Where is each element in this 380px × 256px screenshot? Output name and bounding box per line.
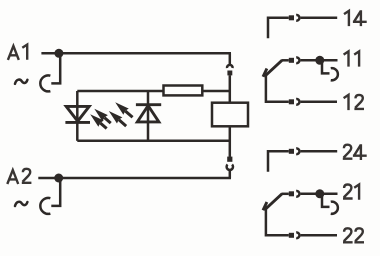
- terminal label A2: [7, 170, 18, 184]
- junction dot at A2: [54, 174, 63, 183]
- switch lever contact 11: [266, 60, 282, 75]
- wire 21 to plug: [282, 193, 289, 196]
- diode D2 (triangle up with cathode bar): [136, 105, 161, 122]
- wire 11 drop to socket: [322, 60, 330, 73]
- wire resistor to coil node: [203, 90, 231, 93]
- terminal label 21: [343, 185, 353, 199]
- wire coil bottom vertical: [229, 128, 232, 157]
- plug-in pin bottom (square): [227, 157, 232, 162]
- wire LED branch vertical: [76, 91, 79, 141]
- wire contact 22 lead: [266, 208, 289, 235]
- plug pin 21 (square): [289, 191, 294, 196]
- LED emission arrow 2a head: [115, 102, 129, 115]
- wire A2 drop to socket: [51, 178, 60, 206]
- LED emission arrow 1b tail: [100, 123, 106, 129]
- plug-in socket top (arc open down): [227, 65, 233, 68]
- wire top rail of indicator network: [77, 90, 163, 93]
- plug pin 22 (square): [289, 233, 294, 238]
- wire A1 drop to socket: [51, 53, 60, 83]
- terminal label 24: [343, 145, 353, 159]
- LED emission arrow 2b head: [109, 111, 123, 124]
- wire 11 to label: [301, 59, 338, 62]
- wire 12 to label: [301, 101, 337, 104]
- wire pin to coil: [229, 75, 232, 101]
- wire coil branch top vertical: [229, 53, 232, 65]
- AC symbol ~ at A2: [15, 202, 27, 206]
- AC symbol ~ at A1: [15, 80, 27, 84]
- wire bottom rail of indicator network: [77, 140, 231, 143]
- lever tick mark 21: [263, 202, 267, 210]
- wire A1 horizontal rail: [41, 52, 231, 55]
- LED emission arrow 2b tail: [119, 120, 126, 126]
- plug-in socket bottom (arc open up): [227, 165, 233, 170]
- resistor R1: [164, 86, 203, 96]
- socket contact A1 (arc open right): [40, 75, 50, 91]
- plug socket 21 (arc open left): [296, 191, 299, 197]
- switch lever contact 21: [266, 194, 282, 209]
- plug socket 11 (arc open left): [296, 57, 299, 63]
- relay coil K1: [212, 103, 248, 127]
- plug socket 12 (arc open left): [296, 99, 299, 105]
- terminal label 11: [344, 51, 349, 66]
- wire 21 to label: [301, 193, 338, 196]
- LED emission arrow 1a head: [94, 109, 108, 122]
- junction dot at A1: [54, 49, 63, 58]
- terminal label 14: [344, 11, 349, 26]
- socket contact A2 (arc open right): [40, 198, 50, 214]
- wire 22 to label: [301, 234, 337, 237]
- lever tick mark 11: [263, 69, 267, 77]
- plug-in pin top (square): [227, 71, 232, 76]
- wire socket to A2 rail: [229, 171, 232, 178]
- wire contact 24 lead with stub: [268, 151, 289, 171]
- LED D1 (triangle down with cathode bar): [65, 106, 90, 122]
- LED emission arrow 2a tail: [125, 111, 132, 117]
- socket contact 21 (arc open left): [331, 202, 338, 214]
- terminal label 12: [344, 95, 349, 110]
- LED emission arrow 1a tail: [104, 118, 110, 124]
- wire diode branch vertical: [147, 91, 150, 141]
- plug pin 11 (square): [289, 58, 294, 63]
- terminal label A1: [8, 46, 19, 60]
- wire 21 drop to socket: [322, 194, 330, 207]
- junction dot 21: [315, 189, 324, 198]
- wire contact 14 lead with stub: [268, 18, 289, 38]
- plug pin 14 (square): [289, 15, 294, 20]
- LED emission arrow 1b head: [90, 114, 104, 127]
- plug socket 22 (arc open left): [296, 233, 299, 239]
- wire 11 to plug: [282, 59, 289, 62]
- wire contact 12 lead: [266, 75, 289, 102]
- plug pin 12 (square): [289, 99, 294, 104]
- plug pin 24 (square): [289, 149, 294, 154]
- plug socket 24 (arc open left): [296, 148, 299, 154]
- socket contact 11 (arc open left): [331, 68, 338, 80]
- wire 24 to label: [301, 150, 338, 153]
- wire 14 to label: [301, 17, 338, 20]
- wire A2 horizontal rail: [38, 177, 231, 180]
- junction dot 11: [315, 56, 324, 65]
- terminal label 22: [343, 228, 353, 242]
- plug socket 14 (arc open left): [296, 15, 299, 21]
